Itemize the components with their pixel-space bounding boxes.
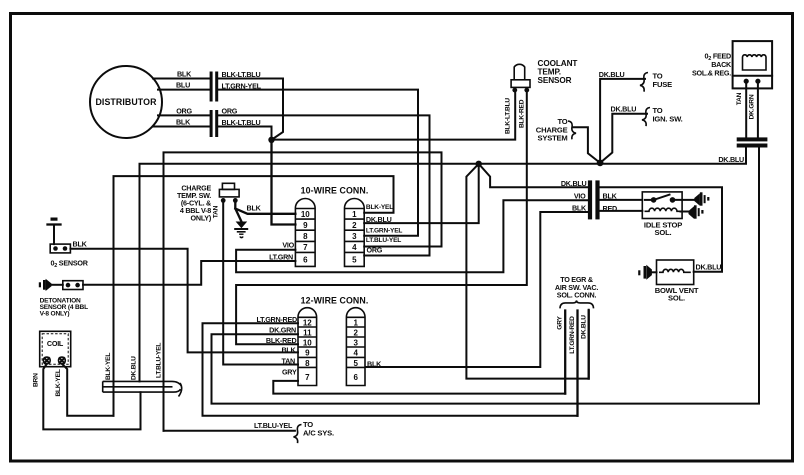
- svg-text:SOL.& REG.: SOL.& REG.: [692, 68, 731, 77]
- O2 sensor: [48, 218, 89, 269]
- connector (double bars) below O2 feedback sol: [737, 137, 768, 147]
- wire LT.BLU-YEL bus to 10-wire pin 4: [164, 152, 442, 430]
- connector (lower pair of bars) at distributor: [210, 110, 219, 137]
- svg-text:SOL.: SOL.: [655, 228, 672, 237]
- svg-text:9: 9: [303, 221, 308, 230]
- brace to ign sw: [642, 108, 650, 127]
- wire BLK-LT.BLU (top) to junction elbow: [218, 70, 283, 140]
- detonation sensor: [39, 279, 88, 318]
- svg-text:ONLY): ONLY): [191, 213, 212, 222]
- svg-text:BLK: BLK: [176, 118, 191, 127]
- svg-text:VIO: VIO: [574, 191, 586, 200]
- svg-text:3: 3: [352, 232, 357, 241]
- wire BLK-YEL bus to 10-wire pin 1: [114, 176, 394, 416]
- svg-text:BLK: BLK: [177, 70, 192, 79]
- wire BLK O2 sensor to 12-wire pin 9: [70, 240, 298, 353]
- wire BLU distributor to connector: [158, 81, 210, 90]
- svg-text:7: 7: [303, 243, 308, 252]
- svg-text:IGN. SW.: IGN. SW.: [653, 114, 683, 123]
- wire GRY EGR conn down to 12-wire pin 7: [557, 311, 566, 394]
- svg-text:LT.GRN-RED: LT.GRN-RED: [569, 316, 576, 354]
- wire LT.GRN-RED 12-wire pin 12 to EGR: [203, 323, 578, 416]
- wire BLK (2nd) distributor to connector: [153, 118, 210, 127]
- wire detonation sensor to 10-wire pin 6: [83, 261, 295, 285]
- wire BLK charge temp switch to ground and 10-wire pin 10: [235, 202, 295, 222]
- svg-text:LT.BLU-YEL: LT.BLU-YEL: [156, 343, 163, 378]
- svg-text:1: 1: [353, 318, 358, 327]
- svg-text:FUSE: FUSE: [653, 80, 673, 89]
- svg-text:SOL.: SOL.: [668, 294, 685, 303]
- svg-text:DK.BLU: DK.BLU: [561, 179, 587, 188]
- wire RED idle stop connector to solenoid box: [600, 204, 643, 213]
- 10-wire connector right column (pins 1-5): [345, 199, 365, 267]
- TO EGR & AIR SW. VAC. SOL. CONN. labels: [555, 275, 598, 300]
- brace to fuse: [640, 73, 648, 92]
- svg-text:10: 10: [303, 338, 312, 347]
- wire to charge system: [536, 117, 600, 163]
- svg-text:3: 3: [353, 338, 358, 347]
- svg-text:TAN: TAN: [213, 205, 220, 218]
- svg-text:6: 6: [303, 256, 308, 265]
- node junction DK.BLU bus right (charge system V): [597, 160, 604, 167]
- charge temp switch: [177, 183, 239, 222]
- svg-text:BLK: BLK: [73, 240, 88, 249]
- svg-text:DK.BLU: DK.BLU: [581, 315, 588, 339]
- svg-text:6: 6: [353, 373, 358, 382]
- 12-wire connector right column (pins 1-6): [346, 308, 365, 386]
- idle stop connector (double bars): [588, 180, 600, 219]
- wire BRN coil to loom: [43, 364, 140, 430]
- svg-text:2: 2: [352, 221, 357, 230]
- svg-text:BLK-YEL: BLK-YEL: [105, 353, 112, 380]
- wire DK.BLU to 10-wire pin 2: [364, 164, 479, 223]
- svg-text:BLK-LT.BLU: BLK-LT.BLU: [505, 98, 512, 134]
- wire harness loom band: [103, 381, 182, 396]
- wire junction down to 10-wire pin 9: [272, 140, 296, 225]
- svg-text:12: 12: [303, 318, 312, 327]
- node junction BLK-LT.BLU: [268, 137, 274, 143]
- svg-text:GRY: GRY: [282, 368, 297, 377]
- svg-text:DK.BLU: DK.BLU: [718, 155, 744, 164]
- 12-wire connector left column (pins 12-7): [298, 308, 317, 386]
- svg-text:COIL: COIL: [47, 339, 64, 348]
- connector (upper pair of bars) at distributor: [210, 72, 219, 102]
- svg-text:RED: RED: [603, 204, 617, 213]
- svg-text:BLK-YEL: BLK-YEL: [55, 369, 62, 396]
- wire TAN charge temp switch to 12-wire pin 8: [223, 202, 298, 365]
- wire DK.BLU diagonal to idle stop connector: [479, 164, 588, 187]
- svg-text:LT.GRN-YEL: LT.GRN-YEL: [366, 228, 403, 235]
- svg-text:BLU: BLU: [176, 81, 190, 90]
- wire junction right to coolant sensor left terminal: [272, 92, 516, 140]
- svg-text:5: 5: [353, 359, 358, 368]
- svg-text:7: 7: [305, 373, 310, 382]
- plug symbol at bowl vent sol input: [638, 265, 656, 280]
- brace to charge system: [568, 121, 576, 139]
- wire ORG distributor to connector: [158, 106, 210, 115]
- idle stop solenoid box with switch and coil: [642, 192, 696, 237]
- svg-text:BLK: BLK: [603, 191, 618, 200]
- wire DK.BLU EGR conn down: [581, 311, 589, 379]
- svg-text:BRN: BRN: [33, 373, 40, 387]
- svg-text:VIO: VIO: [282, 241, 294, 250]
- svg-text:DK.BLU: DK.BLU: [366, 215, 392, 224]
- svg-text:SENSOR: SENSOR: [538, 76, 572, 85]
- svg-text:5: 5: [352, 256, 357, 265]
- distributor: [90, 66, 162, 138]
- svg-text:4: 4: [353, 349, 358, 358]
- svg-text:V-8 ONLY): V-8 ONLY): [40, 311, 70, 318]
- svg-text:DK.BLU: DK.BLU: [696, 262, 722, 271]
- wire BLK idle stop connector to solenoid box: [600, 191, 643, 200]
- svg-text:BLK: BLK: [367, 360, 382, 369]
- svg-text:LT.BLU-YEL: LT.BLU-YEL: [254, 421, 293, 430]
- wire DK.BLU to ignition switch: [600, 105, 683, 163]
- svg-text:BLK-RED: BLK-RED: [266, 336, 297, 345]
- svg-text:DISTRIBUTOR: DISTRIBUTOR: [95, 97, 157, 107]
- svg-text:1: 1: [352, 210, 357, 219]
- brace to A/C sys: [294, 425, 302, 444]
- 10-wire connector left column (pins 10-6): [295, 199, 315, 267]
- svg-text:BLK-LT.BLU: BLK-LT.BLU: [222, 70, 261, 79]
- svg-text:GRY: GRY: [557, 315, 564, 329]
- wire DK.GRN long run to 12-wire pin 11: [212, 148, 760, 404]
- svg-text:LT.BLU-YEL: LT.BLU-YEL: [366, 237, 401, 244]
- svg-text:LT.GRN-YEL: LT.GRN-YEL: [222, 81, 262, 90]
- wire LT.GRN-RED EGR conn down: [569, 311, 578, 416]
- wire BLK-LT.BLU (2nd) to junction: [218, 118, 271, 140]
- wire DK.BLU diagonal to EGR conn link: [466, 164, 588, 379]
- wire BLK-RED coolant sensor to 12-wire pin 10: [236, 92, 527, 344]
- wire BLK-YEL coil joins BLK-YEL vertical: [62, 364, 114, 416]
- wire GRY 12-wire pin 7 to EGR: [273, 381, 565, 394]
- svg-text:4: 4: [352, 243, 357, 252]
- wire TAN from O2 feedback sol to connector: [736, 83, 746, 137]
- svg-text:BLK-RED: BLK-RED: [518, 99, 525, 128]
- O2 feedback solenoid and regulator box: [692, 41, 772, 88]
- coil: [33, 331, 71, 396]
- wire LT.GRN-YEL to 10-wire pin 3: [218, 81, 418, 235]
- coolant temp sensor: [505, 59, 578, 134]
- svg-text:DK.BLU: DK.BLU: [131, 356, 138, 380]
- bowl vent solenoid box: [655, 260, 722, 303]
- svg-text:ORG: ORG: [222, 107, 238, 116]
- svg-text:SYSTEM: SYSTEM: [537, 134, 567, 143]
- svg-text:LT.GRN-RED: LT.GRN-RED: [257, 315, 298, 324]
- wire BLK distributor to connector: [153, 70, 210, 79]
- wire DK.BLU to fuse: [599, 70, 672, 163]
- svg-text:BLK: BLK: [572, 203, 587, 212]
- svg-text:BLK: BLK: [247, 203, 262, 212]
- svg-text:BLK-YEL: BLK-YEL: [366, 204, 393, 211]
- svg-text:DK.BLU: DK.BLU: [611, 105, 637, 114]
- node junction DK.BLU bus left: [476, 161, 482, 167]
- svg-text:11: 11: [303, 328, 312, 337]
- brace over EGR conn wires: [560, 300, 594, 308]
- wire ORG to 10-wire pin 5: [218, 107, 429, 256]
- wire from idle stop coil to plug: [681, 211, 689, 213]
- plug symbol at idle stop switch output: [694, 192, 709, 205]
- svg-text:9: 9: [305, 349, 310, 358]
- wire DK.BLU idle stop connector to bowl vent sol: [600, 187, 722, 272]
- plug symbol at idle stop coil output: [689, 205, 704, 218]
- svg-text:TAN: TAN: [736, 92, 743, 105]
- wire DK.BLU main bus: [140, 148, 747, 382]
- svg-text:10: 10: [301, 210, 310, 219]
- svg-text:SOL. CONN.: SOL. CONN.: [557, 291, 597, 300]
- wire VIO idle stop connector to 10-wire pin 7: [236, 191, 588, 272]
- ground symbol below charge temp switch: [234, 222, 248, 238]
- svg-text:BLK-LT.BLU: BLK-LT.BLU: [222, 118, 261, 127]
- svg-text:TAN: TAN: [282, 357, 296, 366]
- svg-text:DK.BLU: DK.BLU: [599, 70, 625, 79]
- svg-text:10-WIRE CONN.: 10-WIRE CONN.: [301, 186, 369, 196]
- svg-text:DK.GRN: DK.GRN: [749, 94, 756, 119]
- svg-text:8: 8: [303, 232, 308, 241]
- wire BLK 12-wire pin 5 to idle stop connector: [366, 203, 588, 367]
- svg-text:A/C SYS.: A/C SYS.: [303, 428, 334, 437]
- wire LT.BLU-YEL to A/C system: [164, 420, 334, 438]
- svg-text:DK.GRN: DK.GRN: [269, 325, 296, 334]
- svg-text:02 SENSOR: 02 SENSOR: [51, 258, 89, 269]
- svg-text:ORG: ORG: [176, 106, 192, 115]
- svg-text:12-WIRE CONN.: 12-WIRE CONN.: [301, 295, 369, 305]
- svg-text:8: 8: [305, 359, 310, 368]
- svg-text:2: 2: [353, 328, 358, 337]
- wire DK.GRN from O2 feedback sol down right side to 12-wire pin 11: [749, 83, 758, 137]
